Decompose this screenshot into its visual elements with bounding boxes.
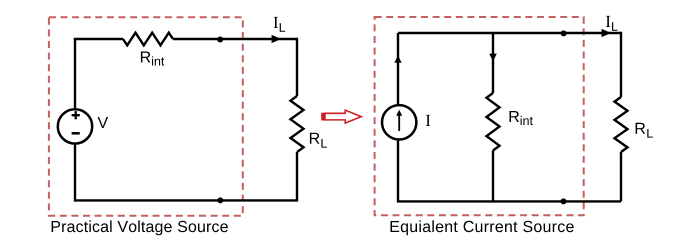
label R_int (right) [510,111,520,122]
arrowhead: load current I_L (right circuit) [602,29,612,37]
wire: top-right segment from R_int to corner [173,38,297,40]
arrowhead: source branch current (up) [394,55,401,63]
label I_L (right) [606,16,611,27]
node dot: bottom node of left circuit [217,197,223,203]
wire: right branch upper (corner down to R_L) [296,38,298,96]
wire: right branch lower, bottom rail and V bottom lead [75,145,297,201]
wire: middle branch lower [492,151,494,202]
node dot: bottom node of right circuit [561,198,567,204]
wire: right branch upper (right circuit corner to R_L) [620,32,622,97]
red transformation arrow [325,110,361,123]
arrowhead: load current I_L (left circuit) [272,35,282,43]
node dot: top node of right circuit [561,30,567,36]
voltage source V (circle symbol) [58,109,92,143]
plus sign inside V source [72,111,80,119]
wire: right branch lower (right circuit) [620,152,622,201]
wire: V source top lead (left vertical) [74,39,76,108]
red arrow tail cap [321,113,325,121]
arrowhead: R_int branch current (down) [489,54,497,62]
label R_int (left) [141,52,151,63]
current source I (circle symbol) [382,105,416,139]
dashed boundary box: practical voltage source [49,17,243,216]
label I_L (left) [274,17,279,28]
resistor R_int (right circuit, vertical zigzag) [487,93,500,151]
wire: top rail of current source circuit [398,32,621,34]
label I [426,115,431,126]
dashed boundary box: equivalent current source [375,17,584,215]
label R_L (right) [636,123,646,134]
wire: current source top lead [397,33,399,104]
resistor R_L (left circuit, vertical zigzag) [291,96,304,152]
caption: Equialent Current Source [391,220,574,235]
resistor R_L (right circuit, vertical zigzag) [615,97,628,152]
resistor R_int (left circuit, horizontal zigzag) [123,33,173,46]
caption: Practical Voltage Source [52,220,228,235]
wire: current source bottom lead and bottom rail [398,141,621,202]
label R_L (left) [310,133,320,144]
label V [98,117,109,128]
arrow inside current source (up) [398,115,400,131]
wire: top-left segment from V to R_int [74,38,123,40]
node dot: top node of left circuit [217,37,223,43]
wire: middle branch upper (to R_int) [492,33,494,93]
minus sign inside V source [72,132,80,135]
